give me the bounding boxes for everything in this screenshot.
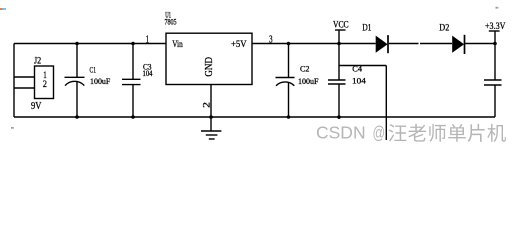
svg-text:+3.3V: +3.3V [485,22,506,32]
svg-text:9V: 9V [31,101,42,112]
svg-text:100uF: 100uF [90,76,111,86]
svg-text:CSDN: CSDN [316,123,366,143]
svg-text:Vin: Vin [172,40,183,50]
svg-text:100uF: 100uF [298,76,319,86]
svg-text:VCC: VCC [333,20,349,30]
svg-text:C4: C4 [352,64,362,74]
svg-text:7805: 7805 [165,18,177,27]
svg-text:1: 1 [146,34,150,46]
svg-text:J2: J2 [34,55,41,65]
svg-text:+5V: +5V [231,40,247,50]
svg-text:C1: C1 [90,64,97,74]
svg-text:2: 2 [201,102,211,108]
svg-text:D2: D2 [439,23,449,33]
svg-text:104: 104 [352,75,367,85]
svg-text:104: 104 [143,69,153,78]
svg-text:D1: D1 [362,23,371,33]
svg-text:GND: GND [204,57,215,77]
svg-text:2: 2 [43,80,47,90]
svg-text:C2: C2 [300,64,310,74]
svg-text:@: @ [373,123,386,143]
svg-text:3: 3 [269,33,273,45]
